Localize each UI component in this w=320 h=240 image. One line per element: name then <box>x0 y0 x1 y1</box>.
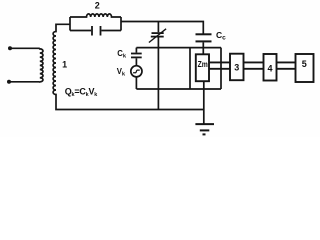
svg-text:5: 5 <box>302 59 307 69</box>
svg-text:2: 2 <box>95 0 100 10</box>
svg-text:4: 4 <box>267 64 272 74</box>
svg-text:3: 3 <box>234 62 239 72</box>
svg-text:Zm: Zm <box>198 59 209 69</box>
svg-text:1: 1 <box>62 60 67 70</box>
